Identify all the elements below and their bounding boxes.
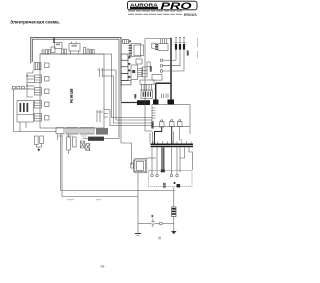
wire: shunt left stub xyxy=(83,138,89,140)
arrow below pair xyxy=(37,149,40,152)
wire: left rung 1 xyxy=(27,75,35,77)
svg-text:Электрическая схема.: Электрическая схема. xyxy=(10,20,60,25)
small terminal xyxy=(129,55,131,57)
header fine-print line 2 xyxy=(128,14,182,15)
label box mid xyxy=(147,62,150,67)
secondary winding lead 7 xyxy=(189,147,193,170)
terminal X3 xyxy=(160,70,163,73)
driver box tall xyxy=(131,65,138,80)
connector CN mid xyxy=(140,80,154,84)
capacitor row c6 xyxy=(84,48,86,55)
board bus rail top xyxy=(40,54,152,118)
driver box M xyxy=(55,43,63,49)
wire: relay drops xyxy=(20,122,26,132)
relay block lower xyxy=(141,90,153,98)
IGBT left pin comb xyxy=(152,108,156,118)
thermostat ST2 xyxy=(86,144,90,151)
secondary winding lead 1 xyxy=(151,147,153,174)
snubber module xyxy=(152,75,162,81)
top mid connector xyxy=(132,43,141,56)
inner connector detail xyxy=(134,45,144,55)
wire: bottom bus upper xyxy=(61,190,175,192)
svg-text:-16-: -16- xyxy=(100,264,106,268)
capacitor CB3 xyxy=(21,86,24,89)
capacitor row c3 xyxy=(49,50,51,55)
label box CN4 xyxy=(45,77,50,82)
connector CN7 left 5 xyxy=(35,114,42,122)
connector CN6 left 4 xyxy=(35,101,42,109)
comb on top edge teeth xyxy=(125,40,127,44)
resistor R20 body xyxy=(172,207,176,217)
capacitor C9 xyxy=(97,68,104,77)
connector bottom comb 3 xyxy=(80,128,94,134)
IGBT pin block P2 xyxy=(170,120,175,127)
connector right pins xyxy=(97,110,103,122)
transformer T1 core bar 2 xyxy=(151,146,194,148)
capacitor row c1 xyxy=(42,50,44,54)
logo AURORA PRO box xyxy=(128,1,198,11)
phase line B xyxy=(179,37,181,65)
wire: left rung 3 xyxy=(27,82,35,84)
relay K1 bar 1 xyxy=(20,103,22,112)
capacitor block C21 xyxy=(168,100,175,105)
ground G1 bar 1 xyxy=(135,233,141,235)
wire: fan top link right xyxy=(147,157,156,159)
wire: left rung 5 xyxy=(27,88,35,90)
wire: long left drop inner xyxy=(60,134,62,191)
connector bottom comb 1 xyxy=(56,128,64,134)
ladder nub 3 xyxy=(128,70,130,72)
relay K1 box xyxy=(17,101,34,123)
capacitor row c5 xyxy=(65,49,67,54)
wire: long left drop outer xyxy=(61,134,63,197)
wire: EMI box outer top xyxy=(31,38,121,102)
bus wire 2 xyxy=(101,70,152,120)
wire: R20 down xyxy=(173,217,175,232)
capacitor row c8 xyxy=(90,50,92,55)
ground G1 bar 2 xyxy=(136,234,140,236)
thermostat ST1 xyxy=(81,141,85,148)
capacitor row c9 xyxy=(93,50,95,55)
contact ladder cell 4 xyxy=(121,74,128,81)
wire: y138.5 shunt line xyxy=(104,138,119,140)
faint label bottom left 2 xyxy=(96,199,101,200)
terminal ring xyxy=(159,222,162,225)
junction dot out xyxy=(174,182,176,184)
connector CN7 teeth xyxy=(35,116,42,119)
capacitor CB2 xyxy=(17,86,20,89)
pin row labels faint xyxy=(58,135,87,136)
wire: pair join xyxy=(36,144,41,149)
contact ladder base xyxy=(121,81,131,85)
terminal X2 xyxy=(160,64,163,67)
corner blob xyxy=(177,184,181,187)
capacitor row c4 xyxy=(62,49,64,54)
wire: ring to R xyxy=(155,223,174,225)
relay RL1 on top edge xyxy=(69,44,80,52)
diode box top xyxy=(51,47,55,53)
bus wire 4 xyxy=(110,110,152,126)
tick marks phase xyxy=(175,37,186,42)
secondary center blob xyxy=(161,170,165,173)
svg-text:CN2: CN2 xyxy=(135,93,137,98)
wire: P2 down to primary xyxy=(171,127,173,144)
label box input xyxy=(152,43,156,48)
breaker QF C xyxy=(183,44,185,50)
capacitor block C20 xyxy=(153,100,159,105)
ladder nub 4 xyxy=(128,76,130,78)
resistor R10 below board xyxy=(67,137,71,150)
contact ladder cell 2 xyxy=(121,60,128,66)
capacitor C30 xyxy=(151,219,154,227)
connector cells right xyxy=(143,67,148,77)
capacitor C24 mid ticks xyxy=(162,94,169,99)
connector CN6 teeth xyxy=(35,103,42,106)
svg-text:PRO: PRO xyxy=(161,1,192,11)
wire: X2 to phase B xyxy=(163,65,180,67)
driver box M label xyxy=(56,44,60,46)
rectifier box outline xyxy=(145,39,171,131)
secondary winding lead 5 xyxy=(179,147,181,172)
connector CN input xyxy=(158,44,168,51)
connector CN input pins xyxy=(155,45,158,50)
relay block lower bars xyxy=(143,92,150,97)
output terminal O4 xyxy=(176,174,179,177)
small connector top mid xyxy=(136,59,142,64)
wire: left rung 2 xyxy=(27,78,35,80)
choke L2 (dark) xyxy=(137,100,150,105)
wire: P3 down xyxy=(180,127,182,140)
wire: bottom bus lower xyxy=(62,196,138,198)
ground G2 arrow xyxy=(171,231,176,234)
contact ladder cell 1 xyxy=(121,54,128,60)
driver box inner mark xyxy=(132,70,135,73)
relay RL1 label xyxy=(72,45,78,47)
wire: output down xyxy=(173,188,175,208)
label box CN6 xyxy=(45,102,50,107)
connector CN input top leads xyxy=(161,39,167,44)
terminal X1 xyxy=(160,59,163,62)
secondary winding lead 3 xyxy=(171,147,173,174)
comb on top edge xyxy=(123,40,129,44)
shunt bar (hatched) xyxy=(88,137,104,141)
relay K1 bar 3 xyxy=(27,103,29,112)
wire: fan down to ground xyxy=(137,173,139,234)
pin stubs right of board xyxy=(104,110,111,118)
wire: left loop xyxy=(27,70,33,97)
svg-text:60N60: 60N60 xyxy=(152,121,155,129)
output terminal O1 xyxy=(151,174,154,177)
wire: x120.5 continues to fan feed xyxy=(121,101,132,166)
resistor pair lower-left xyxy=(35,136,39,145)
secondary winding lead 4 xyxy=(176,147,178,174)
junction dot B xyxy=(26,85,27,86)
contact ladder cell 3 xyxy=(121,67,128,74)
relay K1 bar 2 xyxy=(23,103,25,112)
svg-text:PC 05 128: PC 05 128 xyxy=(70,88,74,103)
wire: thick drop to M box xyxy=(53,38,55,43)
capacitor bank row small xyxy=(12,88,31,90)
output terminal O3 xyxy=(170,174,173,177)
ladder nub 2 xyxy=(128,63,130,65)
connector CN4 teeth xyxy=(35,78,42,81)
breaker QF A xyxy=(175,44,177,50)
wire: X3 to phase C xyxy=(163,70,184,72)
transformer primary ticks xyxy=(153,141,191,143)
fan M1 left nub xyxy=(131,163,134,168)
ladder nub 1 xyxy=(128,57,130,59)
driver pin comb xyxy=(138,67,143,77)
wire: X1 to phase A xyxy=(163,59,176,61)
svg-text:380V: 380V xyxy=(188,50,190,56)
label box CN7 xyxy=(45,116,50,121)
fan M1 offset frame xyxy=(135,159,147,173)
output terminal O2 xyxy=(156,174,159,177)
fan M1 outer xyxy=(134,160,146,172)
svg-text:OUT: OUT xyxy=(163,182,166,188)
transformer T1 core bar 1 xyxy=(151,144,194,146)
top mid connector pins xyxy=(129,45,132,53)
connector bottom comb 4 (dark) xyxy=(96,128,108,135)
connector CN5 left 3 xyxy=(35,88,42,96)
faint label bottom left 1 xyxy=(67,199,74,200)
IGBT pin block P3 xyxy=(178,120,183,127)
capacitor CB1 xyxy=(12,86,15,89)
wire: transformer left top xyxy=(149,133,151,144)
capacitor row c2 xyxy=(46,50,48,55)
connector cells dividers xyxy=(143,70,148,73)
connector CN3 teeth xyxy=(36,63,39,70)
wire: stub xyxy=(57,134,59,140)
breaker QF B xyxy=(179,44,181,50)
connector CN mid pins xyxy=(142,84,152,91)
secondary center lead (thick) xyxy=(162,147,164,172)
small mark below cluster xyxy=(158,237,161,240)
connector comb 3 teeth xyxy=(82,128,92,134)
wire: module right edge down xyxy=(189,127,191,135)
resistor pair lower-left b xyxy=(40,136,44,144)
secondary winding lead 2 xyxy=(156,147,158,174)
connector CN5 teeth xyxy=(35,90,42,93)
relay K1 divider xyxy=(17,114,34,116)
wire: R10 leads xyxy=(68,134,70,154)
connector CN3 left 1 xyxy=(34,63,41,70)
connector bottom comb 2 xyxy=(66,128,78,134)
connector CN4 left 2 xyxy=(35,75,42,83)
main PCB board outline xyxy=(40,54,104,128)
resistor R11 below board xyxy=(73,137,77,147)
relay RL1 legs xyxy=(71,42,79,55)
wire: P1 down to primary xyxy=(155,127,162,144)
phase line A xyxy=(175,37,177,60)
wire: EMI box inner top xyxy=(32,39,119,138)
wire: branch to RC xyxy=(138,223,151,225)
capacitor row c7 xyxy=(87,49,89,54)
connector comb 2 teeth xyxy=(68,128,76,134)
wire: vertical into connector xyxy=(129,40,131,55)
wire: left drop xyxy=(14,89,57,132)
IGBT module box xyxy=(152,105,190,127)
bus wire 3 xyxy=(104,76,152,123)
phase line C xyxy=(183,37,185,71)
output block hatched box xyxy=(149,171,193,187)
wire: branch at y101 to choke xyxy=(121,102,137,104)
svg-text:ERGUS: ERGUS xyxy=(184,13,197,17)
wire: thick DC bus right xyxy=(156,38,171,100)
secondary winding lead 6 xyxy=(180,147,185,158)
fan M1 inner xyxy=(137,162,144,171)
right margin label strip 1 xyxy=(197,38,198,47)
right margin label strip 2 xyxy=(197,51,198,58)
wire: left rung 4 xyxy=(27,85,35,87)
header fine-print line 1 xyxy=(128,10,182,11)
IGBT pin block P1 xyxy=(160,120,165,127)
junction dot A xyxy=(26,75,27,76)
svg-text:CN10: CN10 xyxy=(151,65,153,71)
label box CN5 xyxy=(45,89,50,94)
label box CN3 xyxy=(45,63,50,68)
